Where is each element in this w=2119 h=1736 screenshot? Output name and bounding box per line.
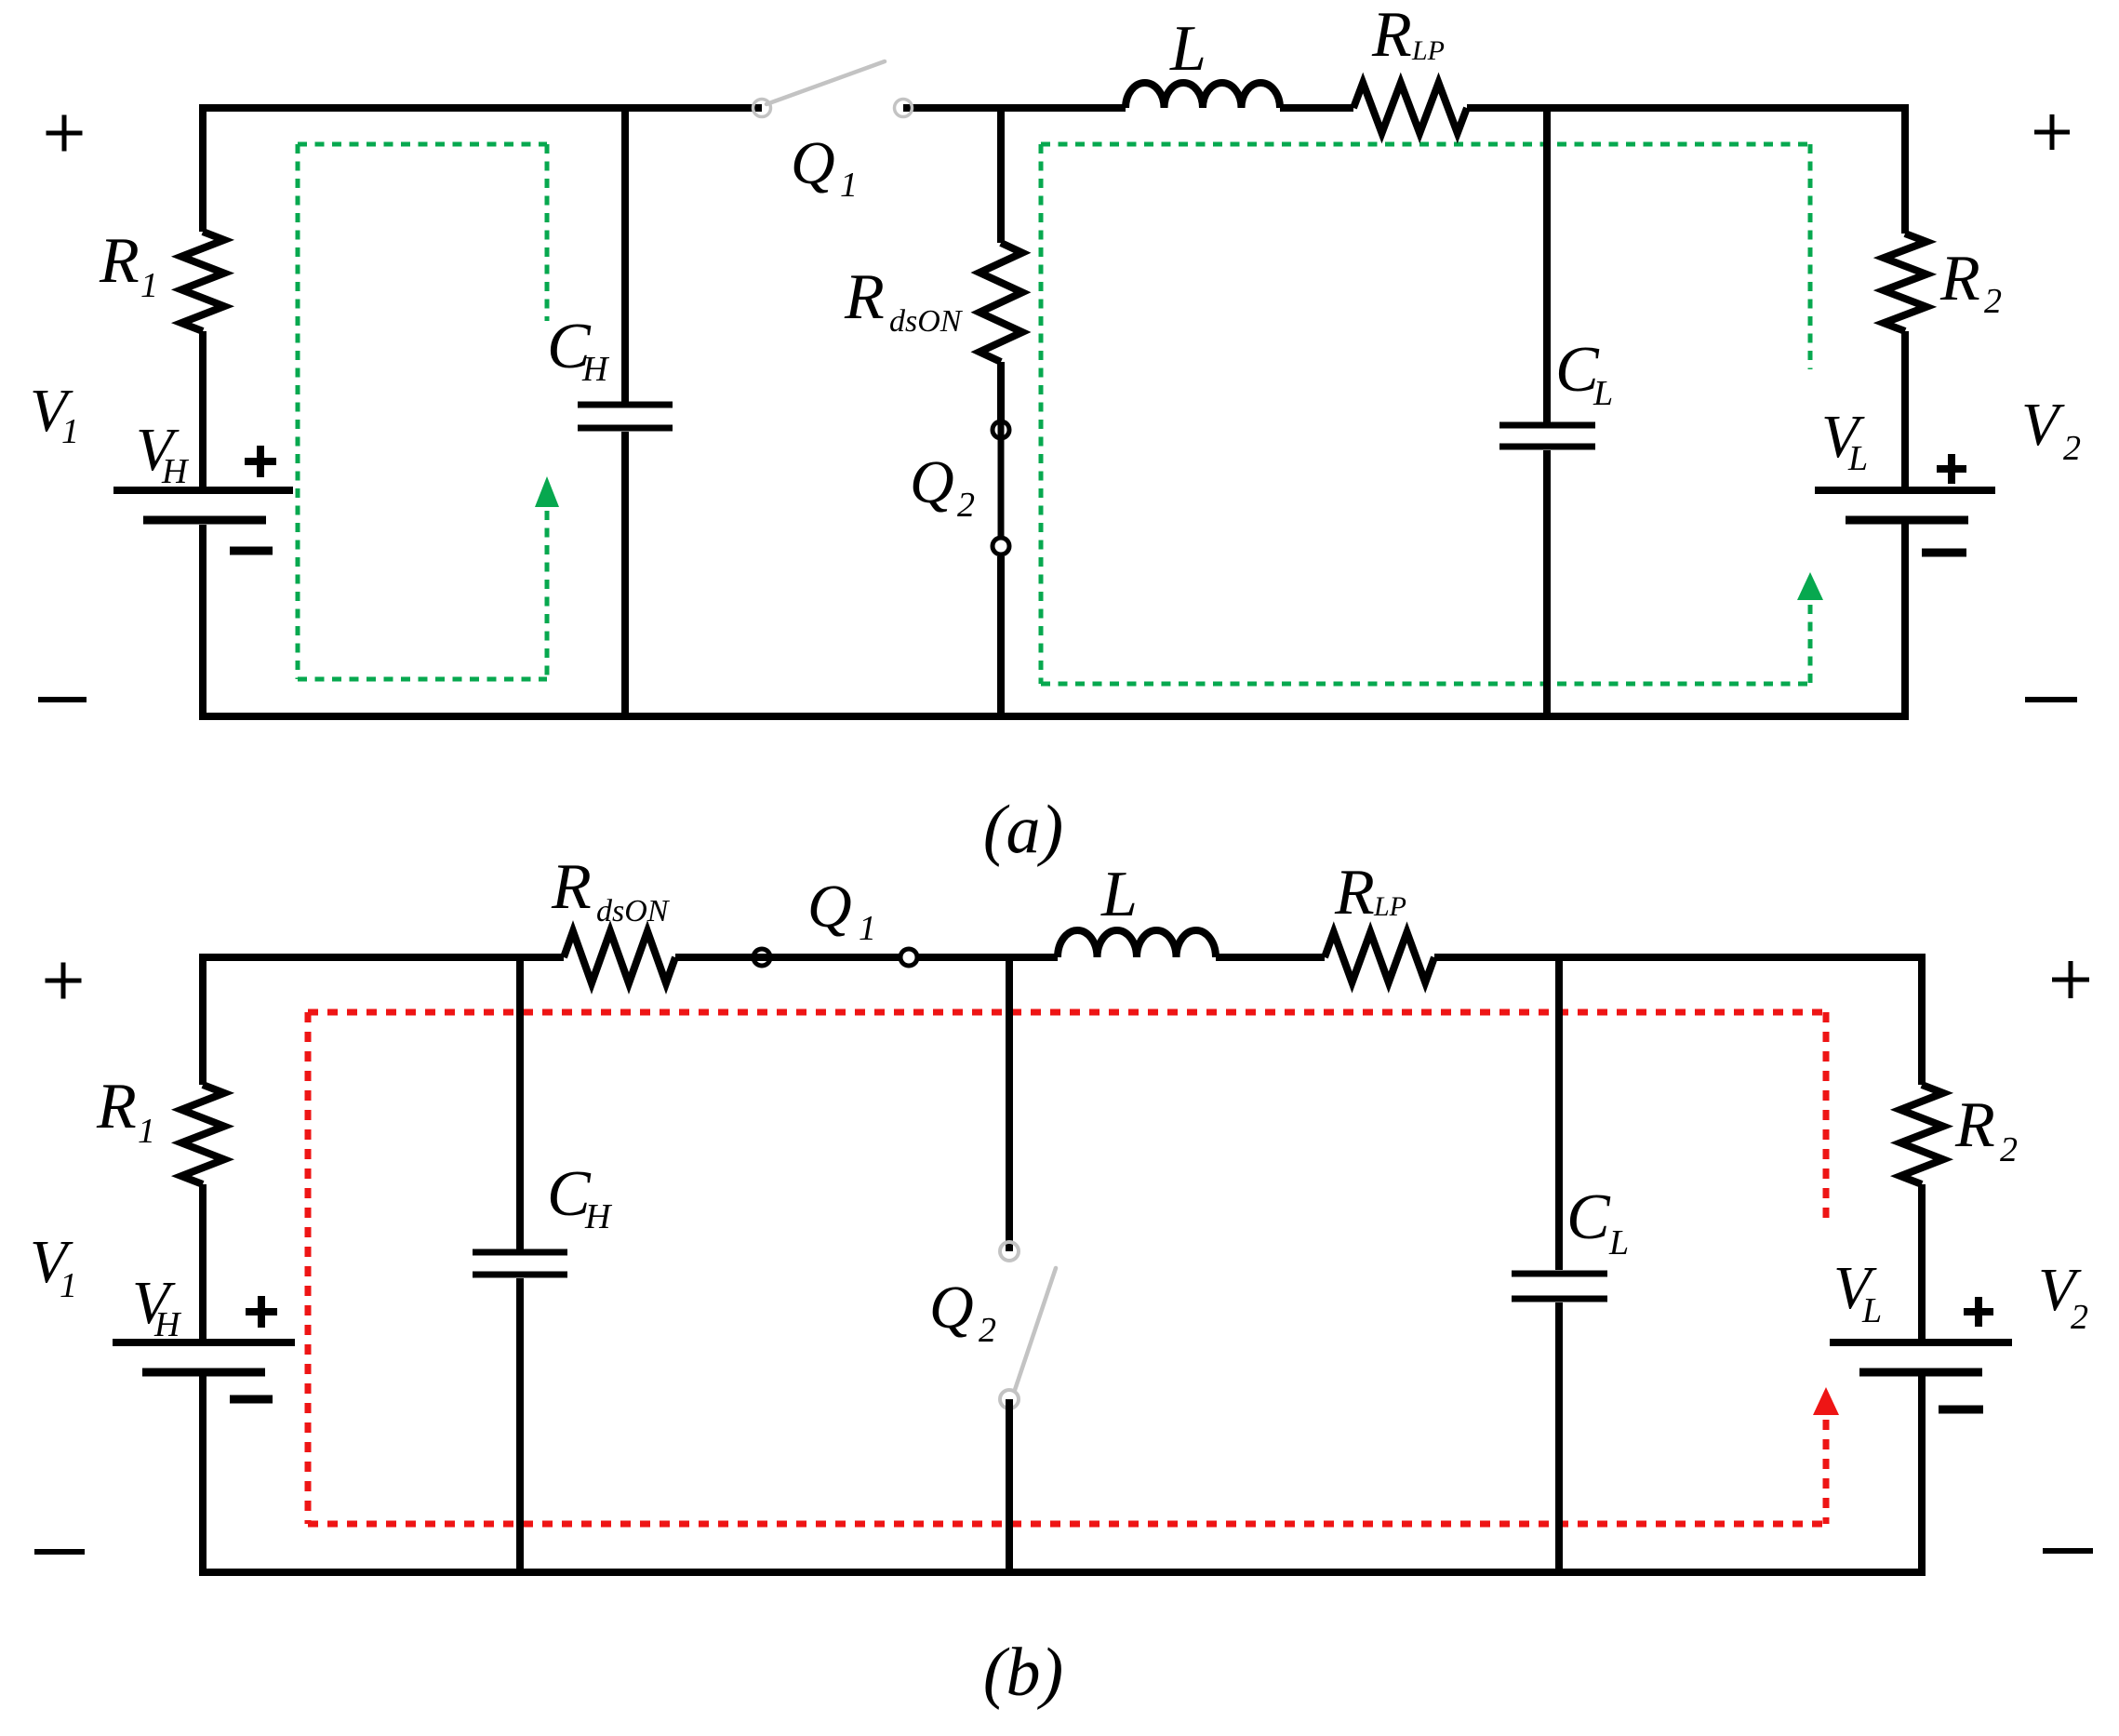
current loop 2 dashed (a) bottom edge	[1041, 682, 1810, 687]
svg-text:V: V	[2021, 391, 2065, 459]
svg-text:R: R	[551, 851, 592, 923]
wire (a) Q2 branch upper	[997, 108, 1005, 243]
label - bottom-left (b)	[34, 1549, 85, 1555]
label - bottom-left (a)	[38, 697, 87, 702]
wire (b) CH branch lower	[516, 1278, 524, 1572]
capacitor CH (b) bottom plate	[473, 1272, 567, 1278]
battery VH (b) positive plate	[113, 1339, 295, 1346]
svg-text:1: 1	[840, 166, 858, 205]
switch Q2 (a) blade closed	[998, 421, 1005, 546]
capacitor CH (b) top plate	[473, 1249, 567, 1256]
current loop 2 dashed (a) right upper	[1808, 144, 1813, 369]
wire (a) top mid segment	[903, 104, 1126, 112]
svg-text:LP: LP	[1411, 35, 1445, 66]
wire (b) bottom rail	[203, 1376, 1922, 1572]
battery VH (a) plus sign	[245, 458, 276, 465]
resistor R2 (a)	[1884, 234, 1926, 331]
resistor RdsON (b)	[564, 931, 675, 983]
battery VL (b) plus sign	[1964, 1308, 1993, 1315]
wire (b) Q2 branch lower	[1006, 1399, 1013, 1572]
svg-text:L: L	[1847, 439, 1868, 478]
svg-text:Q: Q	[910, 448, 954, 516]
svg-text:1: 1	[61, 412, 79, 451]
battery VH (b) negative plate	[142, 1369, 265, 1377]
current loop 1 dashed (a) right lower	[545, 511, 550, 679]
svg-text:L: L	[1593, 374, 1613, 413]
battery VL (b) negative plate	[1859, 1369, 1982, 1377]
wire (a) Q2 branch lower	[997, 556, 1005, 716]
switch Q1 (a) blade	[766, 61, 885, 104]
capacitor CH (a) bottom plate	[578, 425, 673, 432]
current loop 2 dashed (a) top edge	[1041, 142, 1810, 147]
wire (a) CL branch upper	[1543, 108, 1551, 422]
svg-text:R: R	[1371, 0, 1412, 71]
svg-text:2: 2	[1984, 282, 2002, 321]
switch Q2 (b) bottom contact	[1000, 1390, 1019, 1409]
svg-text:2: 2	[2063, 429, 2081, 468]
svg-text:2: 2	[979, 1311, 996, 1350]
current loop 1 dashed (a) left edge	[296, 144, 300, 679]
current loop 2 dashed (a) left edge	[1039, 144, 1044, 684]
wire (b) CL branch upper	[1555, 957, 1563, 1270]
battery VH (a) positive plate	[113, 487, 293, 494]
current loop 1 dashed (a) top edge	[298, 142, 547, 147]
wire (a) between L and RLP	[1280, 104, 1353, 112]
wire (b) CL branch lower	[1555, 1302, 1563, 1572]
battery VH (a) negative plate	[143, 516, 266, 525]
wire (a) top-right rail corner	[1467, 108, 1905, 234]
svg-text:L: L	[1169, 13, 1206, 85]
wire (a) CL branch lower	[1543, 450, 1551, 716]
resistor R1 (b)	[181, 1085, 224, 1184]
svg-text:(a): (a)	[983, 792, 1063, 868]
svg-text:(b): (b)	[983, 1635, 1063, 1711]
label - bottom-right (b)	[2043, 1548, 2093, 1554]
svg-text:dsON: dsON	[596, 894, 671, 928]
svg-text:Q: Q	[929, 1274, 974, 1342]
label + top-left (b)	[46, 979, 82, 983]
wire (a) CH branch upper	[621, 108, 629, 402]
switch Q2 (b) blade	[1015, 1268, 1056, 1390]
inductor L (b)	[1058, 930, 1216, 957]
label - bottom-right (a)	[2025, 697, 2077, 702]
svg-text:H: H	[161, 452, 190, 491]
battery VL (b) minus sign	[1939, 1406, 1983, 1414]
label + top-right (a)	[2034, 130, 2070, 135]
svg-text:L: L	[1861, 1291, 1882, 1330]
resistor RLP (b)	[1325, 932, 1434, 982]
svg-text:R: R	[1939, 243, 1980, 314]
wire (a) bottom rail	[203, 524, 1905, 716]
svg-text:LP: LP	[1373, 891, 1406, 922]
label + top-left (a)	[47, 131, 83, 136]
capacitor CL (b) bottom plate	[1512, 1296, 1607, 1302]
wire (b) CH branch upper	[516, 957, 524, 1249]
switch Q1 (a) left contact	[753, 100, 771, 117]
wire (b) top mid segment	[675, 954, 1058, 961]
label + top-right (b)	[2052, 978, 2089, 982]
current loop 2 dashed (a) right lower	[1808, 605, 1813, 684]
battery VL (a) minus sign	[1922, 549, 1966, 557]
resistor RLP (a)	[1353, 83, 1467, 133]
switch Q1 (a) right contact	[895, 100, 913, 117]
battery VH (b) minus sign	[230, 1395, 273, 1404]
svg-text:1: 1	[859, 909, 876, 948]
svg-text:H: H	[581, 350, 610, 389]
current loop dashed (b) top edge	[308, 1009, 1826, 1016]
capacitor CL (a) top plate	[1499, 422, 1595, 429]
svg-text:C: C	[1566, 1182, 1611, 1253]
wire (a) left rail mid	[199, 331, 207, 487]
wire (b) right rail mid	[1918, 1184, 1926, 1340]
wire (a) RdsON to Q2	[997, 362, 1005, 421]
capacitor CH (a) top plate	[578, 402, 673, 408]
svg-text:2: 2	[957, 486, 975, 525]
svg-text:1: 1	[60, 1266, 77, 1305]
svg-text:Q: Q	[791, 129, 835, 197]
resistor R1 (a)	[181, 232, 224, 331]
resistor R2 (b)	[1900, 1085, 1943, 1184]
wire (b) top-left rail corner	[203, 957, 564, 1085]
current loop 1 arrow (a)	[535, 476, 559, 507]
svg-text:L: L	[1608, 1223, 1629, 1262]
battery VL (b) positive plate	[1830, 1339, 2012, 1346]
switch Q2 (b) top contact	[1000, 1242, 1019, 1261]
svg-text:dsON: dsON	[889, 304, 964, 339]
wire (b) Q2 branch upper	[1006, 957, 1013, 1251]
current loop dashed (b) bottom edge	[308, 1521, 1826, 1528]
svg-text:H: H	[153, 1305, 182, 1344]
battery VH (b) plus sign	[246, 1308, 277, 1315]
svg-text:1: 1	[138, 1112, 155, 1151]
switch Q1 (b) right contact	[900, 949, 917, 966]
wire (a) right rail mid	[1901, 331, 1909, 487]
svg-text:L: L	[1100, 859, 1138, 930]
current loop 2 arrow (a)	[1797, 572, 1823, 600]
battery VL (a) positive plate	[1815, 487, 1995, 494]
svg-text:R: R	[844, 261, 885, 333]
switch Q2 (a) bottom contact	[993, 538, 1009, 554]
capacitor CL (b) top plate	[1512, 1271, 1607, 1277]
svg-text:Q: Q	[807, 873, 852, 941]
capacitor CL (a) bottom plate	[1499, 444, 1595, 450]
svg-text:2: 2	[2071, 1298, 2088, 1337]
current loop dashed (b) right upper	[1823, 1012, 1830, 1225]
inductor L (a)	[1126, 83, 1280, 108]
wire (b) between L and RLP	[1216, 954, 1325, 961]
resistor RdsON (a)	[980, 243, 1022, 362]
svg-text:R: R	[1334, 857, 1375, 928]
svg-text:R: R	[96, 1071, 137, 1142]
wire (b) left rail mid	[199, 1184, 207, 1340]
current loop dashed (b) right lower	[1823, 1420, 1830, 1524]
wire (a) CH branch lower	[621, 432, 629, 716]
svg-text:R: R	[1954, 1089, 1995, 1161]
svg-text:R: R	[99, 225, 140, 297]
switch Q1 (b) left contact	[753, 949, 770, 966]
battery VL (a) negative plate	[1846, 516, 1968, 525]
battery VH (a) minus sign	[230, 547, 273, 555]
svg-text:1: 1	[140, 266, 158, 305]
switch Q2 (a) top contact	[993, 421, 1009, 438]
current loop 1 dashed (a) bottom edge	[298, 677, 547, 682]
current loop 1 dashed (a) right upper	[545, 144, 550, 321]
wire (a) top-left rail corner	[203, 108, 762, 232]
battery VL (a) plus sign	[1937, 465, 1966, 473]
current loop arrow (b)	[1813, 1387, 1839, 1415]
svg-text:H: H	[584, 1197, 613, 1236]
current loop dashed (b) left edge	[305, 1012, 312, 1524]
wire (b) top-right rail corner	[1434, 957, 1922, 1085]
svg-text:2: 2	[2000, 1130, 2018, 1169]
